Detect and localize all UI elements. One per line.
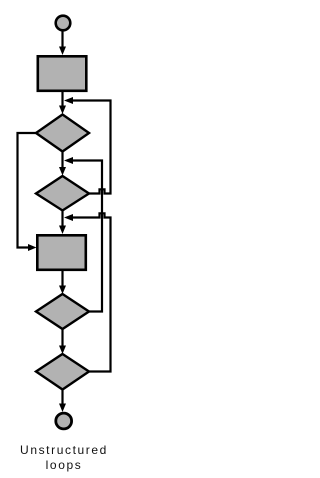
process box 1 xyxy=(38,56,87,91)
wire diamond2 to box2 xyxy=(59,211,66,235)
process box 2 xyxy=(37,235,86,269)
junction arrow J3 into diamond2-box2 wire xyxy=(64,214,73,221)
wire diamond3 to diamond4 xyxy=(59,329,66,354)
caption label xyxy=(0,443,128,473)
feedback wire from diamond4 right vertex up to J3 (with hop over x102 line) xyxy=(71,213,111,371)
feedback wire from diamond3 right vertex up to J2 xyxy=(71,161,102,312)
feedback wire from diamond2 right vertex up to J1 (with hop over x102 line) xyxy=(71,101,111,194)
decision diamond 2 xyxy=(36,176,89,211)
wire box2 to diamond3 xyxy=(59,271,66,294)
wire diamond1 to diamond2 xyxy=(59,152,66,176)
wire box1 to diamond1 xyxy=(59,92,66,114)
start terminal circle xyxy=(56,16,71,31)
decision diamond 4 xyxy=(36,354,89,390)
decision diamond 3 xyxy=(36,294,89,329)
wire diamond4 to end terminal xyxy=(59,390,66,413)
left feedback wire from diamond1 left vertex into box2 left side xyxy=(18,133,37,251)
junction arrow J2 into diamond1-diamond2 wire xyxy=(64,157,73,164)
end terminal circle xyxy=(56,413,72,429)
wire start to box1 xyxy=(59,32,66,56)
junction arrow J1 into box1-diamond1 wire xyxy=(64,97,73,104)
decision diamond 1 xyxy=(36,115,89,152)
